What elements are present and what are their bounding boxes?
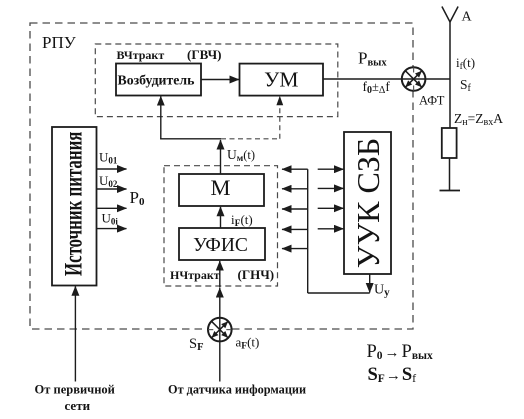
wire arrow 4 from bus into НЧтракт <box>282 228 308 230</box>
wire antenna mast <box>449 22 451 128</box>
wire arrow 2 from bus into НЧтракт <box>282 188 308 190</box>
wire arrow 1 from bus into НЧтракт <box>282 168 308 170</box>
wire U01 arrow <box>97 168 127 170</box>
SF cross diagonal 1 <box>212 321 229 338</box>
svg-text:От первичной: От первичной <box>35 383 115 397</box>
SF cross arrowhead bottom-right <box>221 331 228 338</box>
dashed wire horizontal to УМ branch <box>221 138 280 140</box>
svg-text:(ГНЧ): (ГНЧ) <box>238 267 275 282</box>
wire control bus vertical <box>307 169 309 293</box>
ground <box>440 190 461 192</box>
arrowhead into УМ bottom <box>276 96 283 105</box>
svg-text:АФТ: АФТ <box>419 94 445 108</box>
wire into УФИС bottom <box>219 261 221 288</box>
block М <box>179 174 264 206</box>
wire P0 arrow <box>97 207 127 209</box>
wire U0i arrow <box>97 228 127 230</box>
АФТ cross arrowhead bottom-right <box>415 80 422 87</box>
dashed border stub left inside SF circle <box>208 329 213 331</box>
wire U02 arrow <box>97 188 127 190</box>
svg-text:Возбудитель: Возбудитель <box>118 72 195 87</box>
svg-text:Zн=ZвхА: Zн=ZвхА <box>454 111 503 128</box>
dashed wire vertical into УМ <box>279 96 281 138</box>
wire from sensor through SF to НЧтракт border <box>219 288 221 382</box>
block Источник питания <box>52 127 97 286</box>
wire arrow 1 into УУК СЗБ <box>318 168 344 170</box>
antenna A left arm <box>442 7 450 23</box>
АФТ cross arrowhead bottom-left <box>405 80 412 87</box>
wire М up arrow <box>220 140 222 174</box>
svg-text:(ГВЧ): (ГВЧ) <box>187 47 222 62</box>
svg-text:От датчика информации: От датчика информации <box>168 383 306 397</box>
svg-text:A: A <box>462 10 473 25</box>
block УУК СЗБ <box>344 132 391 274</box>
wire arrow 3 from bus into НЧтракт <box>282 208 308 210</box>
wire control bus bottom horizontal <box>308 292 370 294</box>
svg-text:Источник питания: Источник питания <box>59 132 87 276</box>
SF cross arrowhead bottom-left <box>212 331 219 338</box>
dashed box ВЧтракт (ГВЧ) <box>95 44 337 117</box>
svg-text:М: М <box>210 175 230 200</box>
wire up into Возбудитель <box>160 96 162 139</box>
svg-text:f0±Δf: f0±Δf <box>363 79 391 96</box>
mixer circle SF <box>208 318 232 342</box>
svg-text:aF(t): aF(t) <box>236 335 260 352</box>
mixer circle АФТ <box>402 67 426 91</box>
АФТ cross arrowhead top-right <box>415 71 422 78</box>
SF cross diagonal 2 <box>212 321 229 338</box>
wire arrow 4 into УУК СЗБ <box>318 228 344 230</box>
antenna A right arm <box>450 7 458 23</box>
block УМ <box>240 64 324 96</box>
dashed border stub bottom inside АФТ circle <box>413 86 415 91</box>
wire Uy out of УУК СЗБ <box>369 274 371 293</box>
dashed box НЧтракт (ГНЧ) <box>164 166 278 286</box>
svg-text:сети: сети <box>65 398 91 413</box>
svg-text:ВЧтракт: ВЧтракт <box>117 48 165 62</box>
svg-text:НЧтракт: НЧтракт <box>170 268 220 282</box>
svg-text:if(t): if(t) <box>456 55 475 72</box>
АФТ cross diagonal 1 <box>405 71 422 88</box>
wire horizontal Uм bus <box>160 138 221 140</box>
wire УФИС to М <box>220 207 222 228</box>
svg-text:РПУ: РПУ <box>42 33 77 52</box>
svg-text:УУК СЗБ: УУК СЗБ <box>350 138 386 268</box>
SF cross arrowhead top-right <box>221 321 228 328</box>
svg-text:iF(t): iF(t) <box>231 212 253 229</box>
block Возбудитель <box>116 64 201 96</box>
dashed box РПУ <box>30 23 413 329</box>
wire arrow 5 from bus into НЧтракт <box>282 248 308 250</box>
АФТ cross diagonal 2 <box>405 71 422 88</box>
block УФИС <box>179 228 265 260</box>
dashed border stub right inside SF circle <box>226 329 231 331</box>
svg-text:УФИС: УФИС <box>193 235 248 256</box>
wire from primary net to Источник питания <box>74 286 76 381</box>
wire Возбудитель to УМ <box>201 79 239 81</box>
resistor Zн <box>442 128 457 158</box>
svg-text:SF→Sf: SF→Sf <box>368 365 417 385</box>
svg-text:УМ: УМ <box>264 68 298 92</box>
wire resistor to ground <box>449 158 451 191</box>
dashed border stub top inside АФТ circle <box>413 68 415 73</box>
wire УМ to antenna line <box>323 78 450 80</box>
wire arrow 2 into УУК СЗБ <box>318 187 344 189</box>
wire arrow 3 into УУК СЗБ <box>318 207 344 209</box>
